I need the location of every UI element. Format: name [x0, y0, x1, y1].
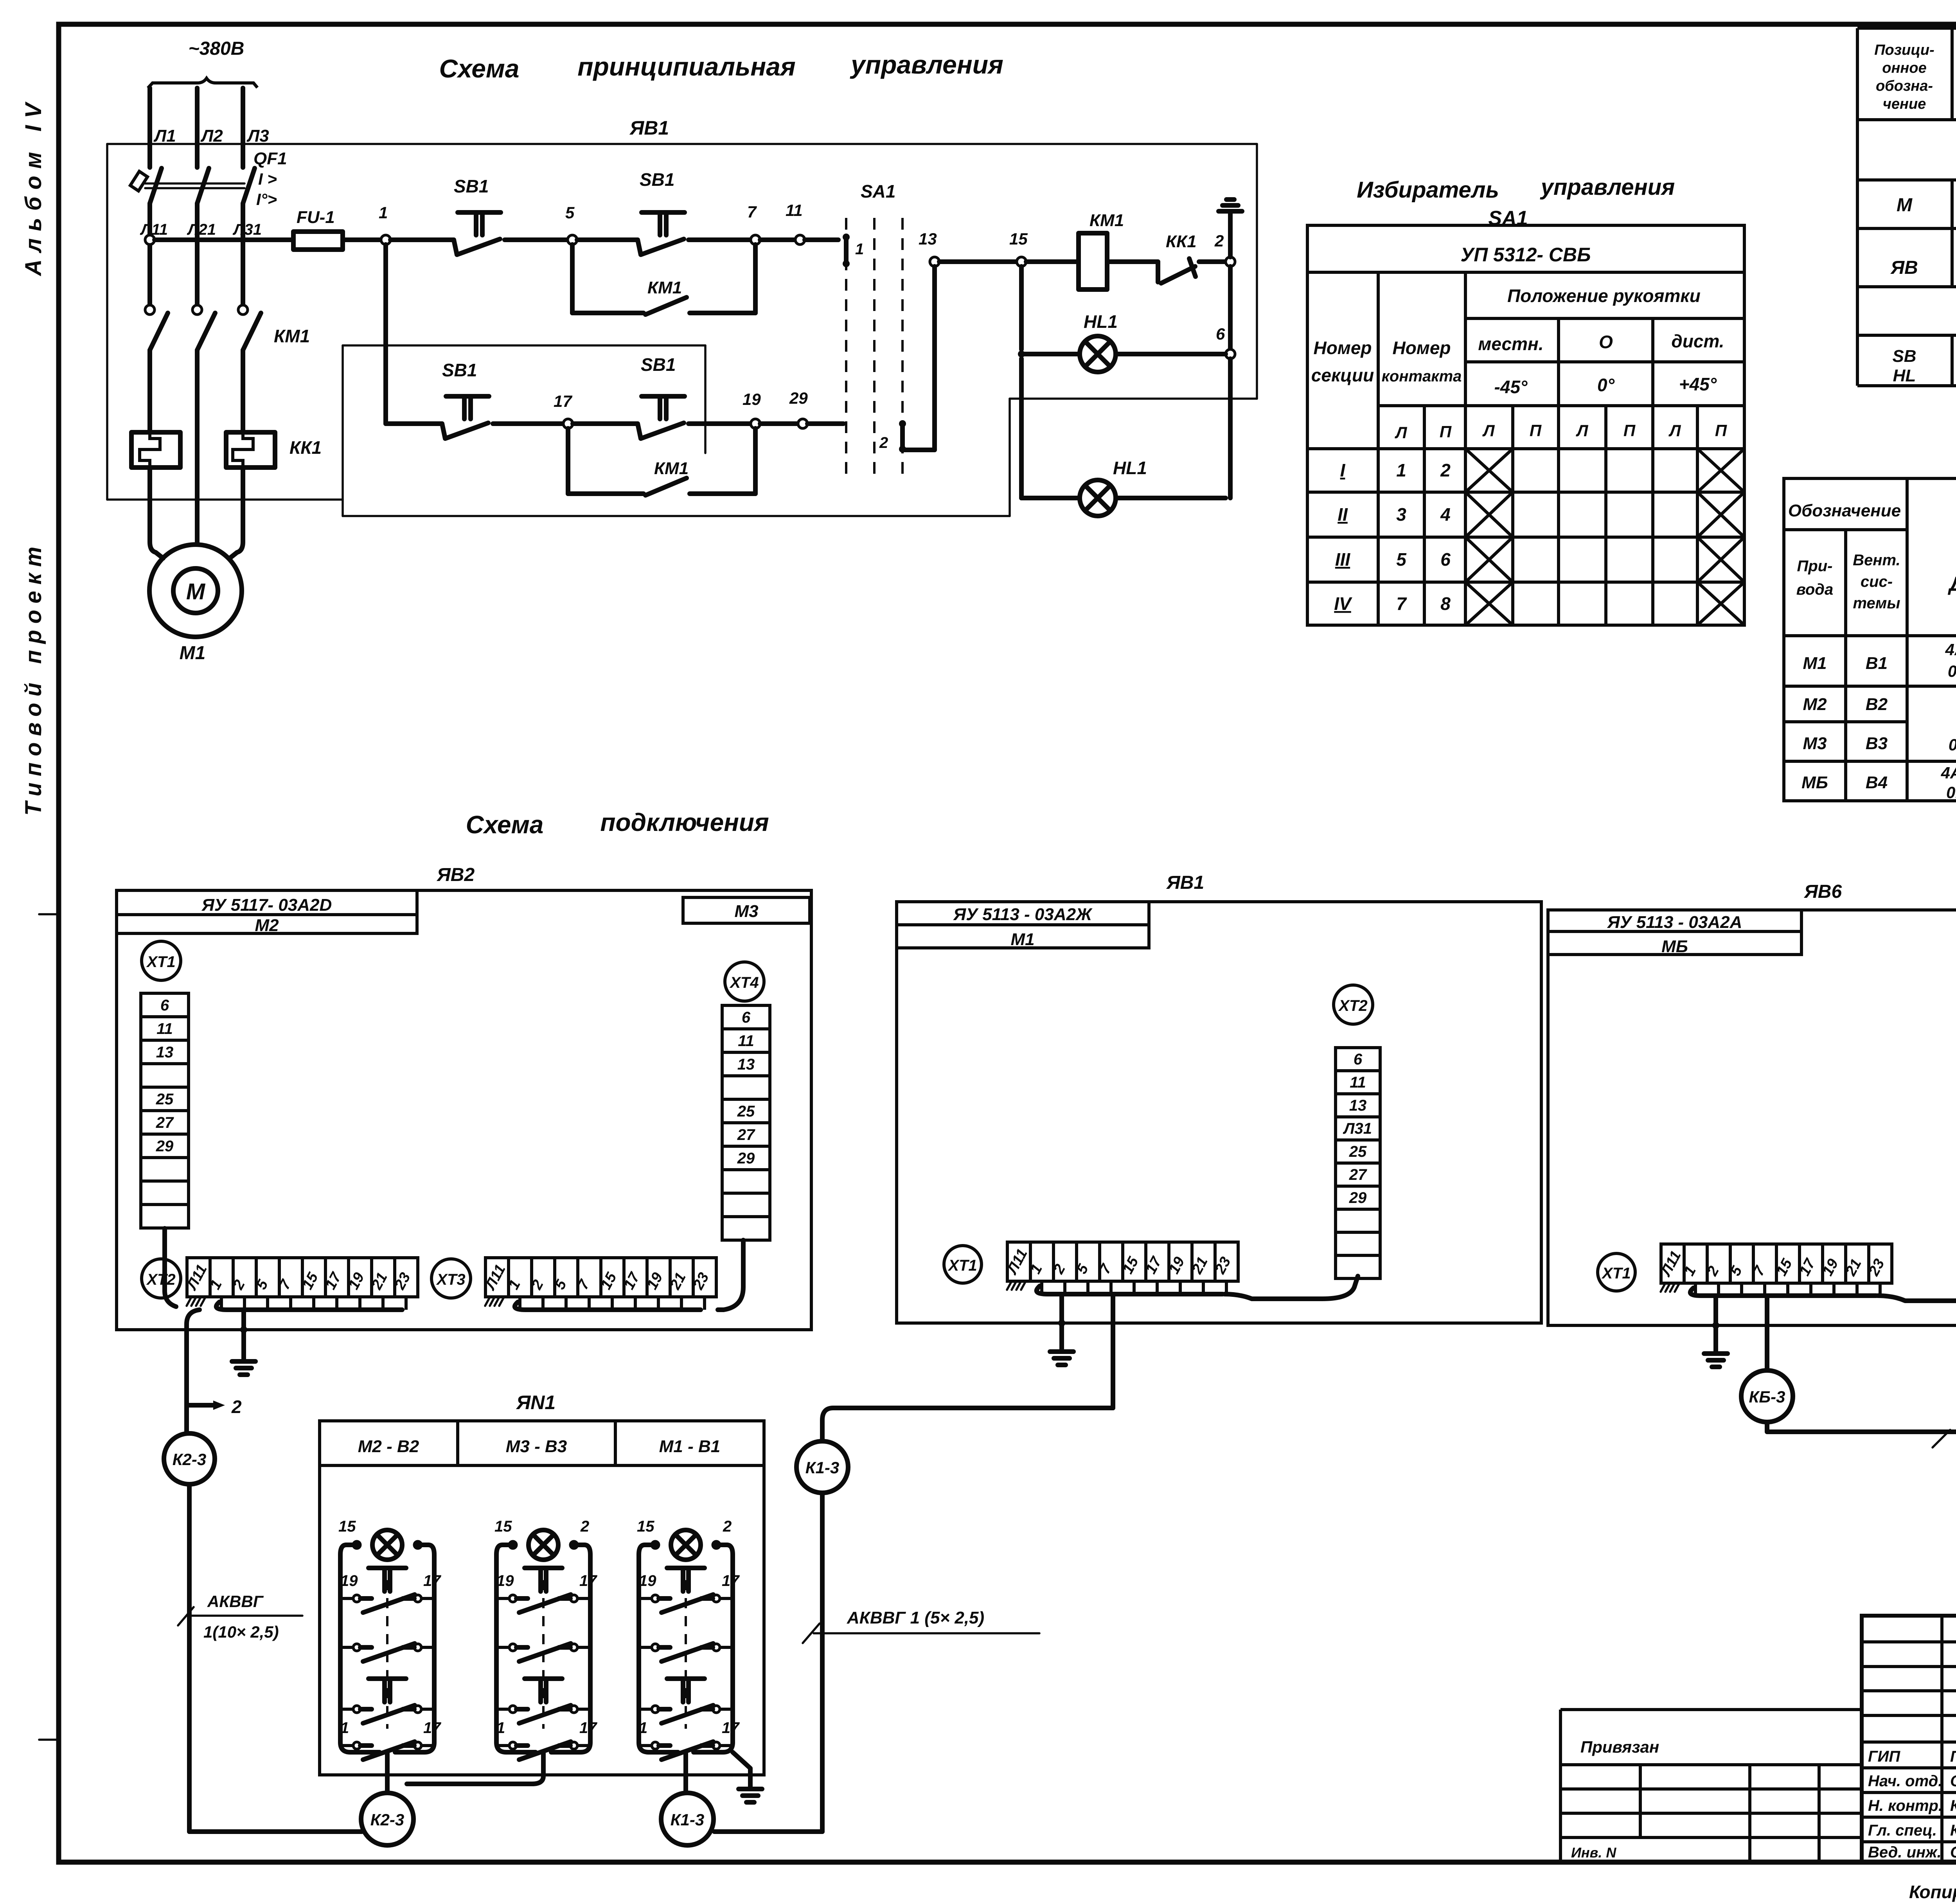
svg-text:25: 25 [737, 1103, 755, 1120]
svg-text:вода: вода [1796, 581, 1834, 598]
svg-text:В3: В3 [1866, 734, 1888, 753]
svg-text:7: 7 [747, 203, 757, 221]
svg-text:Схема: Схема [439, 54, 520, 83]
svg-text:М1: М1 [1010, 930, 1034, 949]
svg-text:19: 19 [742, 390, 761, 408]
svg-text:19: 19 [496, 1572, 514, 1589]
svg-text:Копировал Марченко: Копировал Марченко [1909, 1882, 1956, 1902]
svg-text:3: 3 [1396, 504, 1406, 525]
svg-text:1: 1 [379, 203, 388, 222]
svg-text:Инв. N: Инв. N [1571, 1845, 1616, 1861]
svg-text:HL: HL [1893, 366, 1916, 385]
svg-text:ЯВ1: ЯВ1 [1166, 872, 1204, 893]
svg-text:КК1: КК1 [289, 437, 322, 458]
svg-text:IV: IV [1334, 593, 1352, 614]
svg-text:Л31: Л31 [232, 221, 262, 238]
svg-text:17: 17 [722, 1719, 740, 1737]
svg-text:2: 2 [580, 1518, 589, 1535]
svg-text:2: 2 [879, 434, 888, 451]
svg-text:ЯВ: ЯВ [1890, 257, 1918, 278]
svg-text:дист.: дист. [1671, 331, 1724, 351]
svg-text:HL1: HL1 [1113, 458, 1147, 478]
svg-text:МБ: МБ [1661, 937, 1688, 956]
svg-text:Вент.: Вент. [1853, 552, 1900, 569]
svg-text:Двигатель: Двигатель [1947, 573, 1956, 595]
svg-text:25: 25 [156, 1091, 174, 1108]
svg-text:FU-1: FU-1 [297, 208, 335, 227]
svg-text:I°>: I°> [256, 190, 277, 209]
svg-text:Нач. отд.: Нач. отд. [1868, 1773, 1942, 1790]
svg-text:К1-3: К1-3 [671, 1811, 705, 1829]
svg-text:ХТ4: ХТ4 [729, 974, 759, 991]
svg-text:сис-: сис- [1861, 573, 1893, 590]
svg-text:0,37 кВт; 1,2 А: 0,37 кВт; 1,2 А [1949, 735, 1956, 754]
svg-text:ЯВ1: ЯВ1 [629, 117, 669, 139]
svg-text:В2: В2 [1866, 695, 1888, 714]
svg-text:В1: В1 [1866, 654, 1888, 673]
svg-text:Альбом IV: Альбом IV [21, 96, 46, 277]
svg-text:чение: чение [1883, 96, 1926, 112]
svg-text:Л: Л [1395, 423, 1408, 442]
svg-text:Л3: Л3 [246, 126, 269, 146]
svg-text:М2 - В2: М2 - В2 [358, 1437, 419, 1456]
svg-text:SB1: SB1 [640, 169, 674, 190]
svg-text:1: 1 [340, 1719, 349, 1737]
svg-text:Избиратель: Избиратель [1357, 177, 1499, 203]
svg-text:ХТ1: ХТ1 [1601, 1265, 1631, 1282]
svg-text:К2-3: К2-3 [173, 1450, 207, 1469]
svg-text:HL1: HL1 [1084, 311, 1118, 332]
svg-text:2: 2 [723, 1518, 732, 1535]
svg-text:Кузнецов: Кузнецов [1950, 1822, 1956, 1839]
svg-text:5: 5 [1396, 549, 1407, 570]
svg-text:-45°: -45° [1494, 377, 1528, 397]
svg-text:27: 27 [156, 1114, 174, 1131]
svg-text:Номер: Номер [1392, 338, 1451, 358]
svg-text:1(10× 2,5): 1(10× 2,5) [203, 1623, 279, 1641]
svg-text:КМ1: КМ1 [1089, 211, 1124, 230]
svg-text:2: 2 [1214, 232, 1224, 250]
svg-text:8: 8 [1440, 593, 1451, 614]
svg-text:принципиальная: принципиальная [577, 52, 796, 81]
svg-text:7: 7 [1396, 593, 1407, 614]
svg-text:М2: М2 [255, 916, 279, 935]
svg-text:1: 1 [855, 241, 864, 258]
svg-text:М3: М3 [1803, 734, 1827, 753]
svg-text:Н. контр.: Н. контр. [1868, 1797, 1943, 1814]
svg-text:17: 17 [579, 1572, 597, 1589]
svg-text:0,12 кВт; 0,44А: 0,12 кВт; 0,44А [1946, 783, 1956, 802]
svg-text:М1 - В1: М1 - В1 [659, 1437, 720, 1456]
svg-text:П: П [1440, 423, 1452, 441]
svg-text:Л31: Л31 [1343, 1120, 1372, 1137]
svg-text:13: 13 [919, 230, 937, 248]
svg-text:ЯУ 5113 - 03А2А: ЯУ 5113 - 03А2А [1607, 913, 1742, 932]
svg-text:контакта: контакта [1382, 368, 1462, 385]
svg-text:1: 1 [639, 1719, 647, 1737]
svg-text:М3: М3 [734, 902, 758, 921]
svg-text:Номер: Номер [1313, 338, 1372, 358]
svg-text:ХТ1: ХТ1 [947, 1257, 977, 1274]
svg-text:~380В: ~380В [189, 38, 244, 59]
svg-text:П: П [1715, 421, 1727, 440]
svg-text:Л: Л [1668, 421, 1681, 440]
svg-text:4: 4 [1440, 504, 1451, 525]
svg-text:ХТ3: ХТ3 [436, 1271, 465, 1288]
svg-text:Л: Л [1576, 421, 1589, 440]
svg-text:Л: Л [1482, 421, 1495, 440]
svg-text:13: 13 [1349, 1097, 1367, 1114]
svg-text:КМ1: КМ1 [654, 459, 689, 478]
svg-text:МБ: МБ [1801, 773, 1828, 792]
svg-text:обозна-: обозна- [1876, 78, 1933, 94]
svg-text:17: 17 [579, 1719, 597, 1737]
svg-text:I: I [1340, 460, 1346, 480]
svg-text:ХТ2: ХТ2 [1338, 997, 1367, 1014]
svg-text:6: 6 [742, 1009, 751, 1026]
svg-text:КК1: КК1 [1166, 232, 1197, 251]
svg-text:17: 17 [722, 1572, 740, 1589]
svg-text:Семашко: Семашко [1950, 1844, 1956, 1861]
svg-text:При-: При- [1797, 557, 1833, 575]
svg-text:К2-3: К2-3 [370, 1811, 405, 1829]
svg-text:КБ-3: КБ-3 [1749, 1388, 1785, 1406]
svg-text:О: О [1599, 332, 1613, 352]
svg-text:4А71А4; ~380В: 4А71А4; ~380В [1945, 640, 1956, 659]
svg-text:17: 17 [554, 392, 572, 410]
svg-text:2: 2 [231, 1397, 242, 1417]
svg-text:15: 15 [338, 1518, 356, 1535]
svg-text:SB1: SB1 [641, 354, 676, 375]
svg-text:I >: I > [258, 170, 277, 188]
svg-text:+45°: +45° [1679, 374, 1717, 394]
svg-text:27: 27 [1349, 1166, 1367, 1183]
svg-text:0,55 кВт, 17А: 0,55 кВт, 17А [1948, 662, 1956, 680]
svg-text:Кузнецов: Кузнецов [1950, 1797, 1956, 1814]
svg-text:Позици-: Позици- [1874, 42, 1934, 58]
svg-text:ЯN1: ЯN1 [516, 1392, 556, 1413]
svg-text:темы: темы [1853, 595, 1900, 612]
svg-text:М2: М2 [1803, 695, 1827, 714]
svg-text:подключения: подключения [600, 808, 769, 836]
svg-text:III: III [1335, 549, 1351, 570]
svg-text:17: 17 [423, 1719, 441, 1737]
svg-text:К1-3: К1-3 [805, 1458, 840, 1477]
svg-text:29: 29 [156, 1138, 174, 1155]
svg-text:Схема: Схема [466, 811, 544, 839]
svg-text:13: 13 [156, 1044, 174, 1061]
svg-text:19: 19 [639, 1572, 656, 1589]
svg-text:11: 11 [786, 201, 803, 219]
svg-text:ГИП: ГИП [1868, 1748, 1900, 1765]
svg-text:Пивторак: Пивторак [1950, 1748, 1956, 1765]
svg-text:Привязан: Привязан [1580, 1738, 1659, 1756]
svg-text:0°: 0° [1597, 375, 1615, 395]
svg-text:5: 5 [565, 203, 575, 222]
svg-text:М: М [186, 579, 206, 604]
svg-text:онное: онное [1882, 60, 1926, 76]
svg-text:Л2: Л2 [200, 126, 223, 146]
svg-text:М: М [1897, 195, 1913, 216]
svg-text:SB1: SB1 [454, 176, 489, 196]
svg-text:управления: управления [1540, 174, 1675, 200]
svg-text:1: 1 [1396, 460, 1406, 480]
svg-text:29: 29 [1349, 1189, 1367, 1206]
svg-text:Положение рукоятки: Положение рукоятки [1507, 286, 1701, 306]
svg-text:29: 29 [737, 1150, 755, 1167]
svg-text:ЯУ 5117- 03А2D: ЯУ 5117- 03А2D [201, 895, 332, 915]
svg-text:КМ1: КМ1 [274, 326, 310, 346]
svg-text:управления: управления [850, 50, 1003, 79]
svg-text:6: 6 [1354, 1051, 1363, 1068]
svg-text:Л1: Л1 [153, 126, 176, 146]
svg-text:15: 15 [637, 1518, 654, 1535]
svg-text:SB1: SB1 [442, 360, 477, 380]
svg-text:П: П [1530, 421, 1542, 440]
svg-text:1: 1 [496, 1719, 505, 1737]
svg-text:секции: секции [1311, 365, 1374, 385]
svg-text:Типовой проект: Типовой проект [21, 540, 46, 816]
svg-text:АКВВГ: АКВВГ [207, 1592, 264, 1611]
svg-text:6: 6 [1216, 325, 1225, 343]
svg-text:М1: М1 [1803, 654, 1827, 673]
svg-text:УП 5312- СВБ: УП 5312- СВБ [1460, 244, 1591, 266]
svg-text:ЯУ 5113 - 03А2Ж: ЯУ 5113 - 03А2Ж [953, 905, 1093, 924]
svg-text:25: 25 [1349, 1143, 1367, 1160]
svg-text:Огурцов: Огурцов [1950, 1773, 1956, 1790]
svg-text:В4: В4 [1866, 773, 1888, 792]
svg-text:SB: SB [1892, 347, 1916, 366]
svg-text:11: 11 [1350, 1074, 1366, 1091]
svg-text:17: 17 [423, 1572, 441, 1589]
svg-text:6: 6 [160, 997, 169, 1014]
svg-text:II: II [1338, 504, 1348, 525]
svg-text:27: 27 [737, 1126, 755, 1143]
svg-text:2: 2 [1440, 460, 1451, 480]
svg-text:Вед. инж.: Вед. инж. [1868, 1844, 1942, 1861]
svg-text:QF1: QF1 [253, 149, 287, 168]
svg-text:11: 11 [738, 1032, 754, 1050]
svg-text:11: 11 [156, 1020, 173, 1037]
svg-text:М3 - В3: М3 - В3 [506, 1437, 567, 1456]
svg-text:19: 19 [340, 1572, 358, 1589]
svg-text:КМ1: КМ1 [647, 278, 682, 297]
svg-text:Гл. спец.: Гл. спец. [1868, 1822, 1937, 1839]
svg-text:Обозначение: Обозначение [1788, 501, 1901, 520]
svg-text:SA1: SA1 [861, 181, 895, 201]
svg-text:ХТ2: ХТ2 [146, 1271, 175, 1288]
svg-text:М1: М1 [180, 643, 206, 663]
svg-text:ЯВ2: ЯВ2 [436, 865, 475, 885]
svg-text:13: 13 [737, 1056, 755, 1073]
svg-text:6: 6 [1440, 549, 1451, 570]
svg-text:ЯВ6: ЯВ6 [1803, 881, 1842, 902]
svg-text:АКВВГ 1 (5× 2,5): АКВВГ 1 (5× 2,5) [847, 1608, 984, 1627]
svg-text:4АА56 А4; ~380В: 4АА56 А4; ~380В [1941, 764, 1956, 782]
svg-text:15: 15 [494, 1518, 512, 1535]
svg-text:29: 29 [789, 389, 808, 407]
svg-text:ХТ1: ХТ1 [146, 953, 175, 971]
svg-text:П: П [1623, 421, 1636, 440]
svg-text:местн.: местн. [1478, 334, 1543, 354]
svg-text:15: 15 [1009, 230, 1028, 248]
svg-text:Л21: Л21 [187, 221, 216, 238]
